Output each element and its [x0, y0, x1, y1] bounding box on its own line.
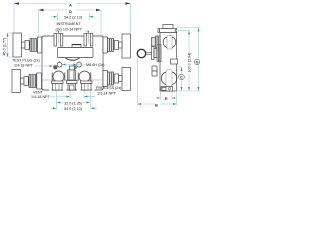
svg-text:(2x) 1/2-14 NPT: (2x) 1/2-14 NPT: [56, 27, 83, 31]
svg-text:B: B: [155, 103, 158, 107]
right extension lines: [177, 28, 200, 92]
side view left top stack: [152, 36, 161, 48]
svg-text:TEST PLUG (2x): TEST PLUG (2x): [12, 59, 40, 63]
side view top-right small block: [171, 59, 178, 64]
M8 holes: [57, 61, 104, 67]
bottom plug left (process): [52, 81, 64, 90]
svg-text:VENT: VENT: [33, 91, 44, 95]
vent/process pointer row: [50, 96, 95, 98]
svg-text:D: D: [69, 10, 72, 14]
vent fitting center: [68, 66, 76, 80]
dimension C (circled) right inner: [179, 67, 185, 91]
dimension B bottom: [138, 59, 177, 108]
side view bottom plug: [161, 87, 173, 92]
svg-text:45.0 (1.77): 45.0 (1.77): [2, 38, 6, 56]
center plate: [58, 45, 94, 61]
valve lower-left: [12, 70, 42, 93]
svg-text:54.0 (2.13): 54.0 (2.13): [64, 107, 82, 111]
bottom vent port: [67, 81, 78, 91]
instrument port left: [54, 34, 63, 47]
side view lower bonnet circle: [161, 70, 177, 87]
svg-text:1/4-18 NPT: 1/4-18 NPT: [14, 64, 34, 68]
dimension D: [39, 9, 102, 36]
test plug circles: [53, 65, 76, 69]
side view lower-left small stack: [152, 66, 157, 76]
side view upper bonnet circle: [163, 36, 176, 50]
valve upper-left: [13, 33, 42, 57]
side view column: [158, 25, 177, 92]
dimension 100.0 (3.94) right middle: [187, 31, 191, 92]
valve lower-right: [103, 68, 131, 91]
svg-text:54.0 (2.13): 54.0 (2.13): [64, 16, 82, 20]
svg-text:A: A: [69, 3, 72, 7]
lower bonnet circles: [52, 71, 91, 82]
dimension 45.0 (1.77) left: [2, 33, 13, 57]
svg-text:C: C: [180, 76, 183, 80]
svg-text:G: G: [196, 61, 199, 65]
dimension 32.0 (1.26): [57, 101, 90, 105]
dimension 54.0 (2.13) top: [52, 14, 96, 21]
bottom plug right (process): [81, 81, 93, 90]
svg-text:1/4-18 NPT: 1/4-18 NPT: [31, 95, 51, 99]
label INSTRUMENT (2x) 1/2-14 NPT: [56, 22, 90, 34]
svg-text:INSTRUMENT: INSTRUMENT: [57, 22, 82, 26]
dimension G (circled) right outer: [194, 28, 200, 92]
label PROCESS (2x) 1/2-14 NPT: [96, 86, 121, 96]
dimension A: [14, 2, 131, 33]
valve upper-right: [103, 34, 131, 58]
bottom extension lines: [57, 91, 91, 110]
label TEST PLUG (2x) 1/4-18 NPT: [12, 59, 53, 68]
label VENT 1/4-18 NPT: [31, 91, 51, 100]
svg-text:32.0 (1.26): 32.0 (1.26): [64, 101, 82, 105]
svg-text:100.0 (3.94): 100.0 (3.94): [187, 53, 191, 73]
dimension E bottom of side view: [156, 92, 177, 101]
svg-text:M8-6H (2x): M8-6H (2x): [86, 63, 104, 67]
front view body: [42, 36, 103, 91]
dimension 54.0 (2.13) bottom: [51, 107, 98, 111]
svg-text:PROCESS (2x): PROCESS (2x): [96, 86, 121, 90]
instrument port right: [84, 34, 93, 47]
side view vent valve (knob + stem + bonnet): [137, 45, 161, 62]
svg-text:1/2-14 NPT: 1/2-14 NPT: [97, 92, 117, 96]
